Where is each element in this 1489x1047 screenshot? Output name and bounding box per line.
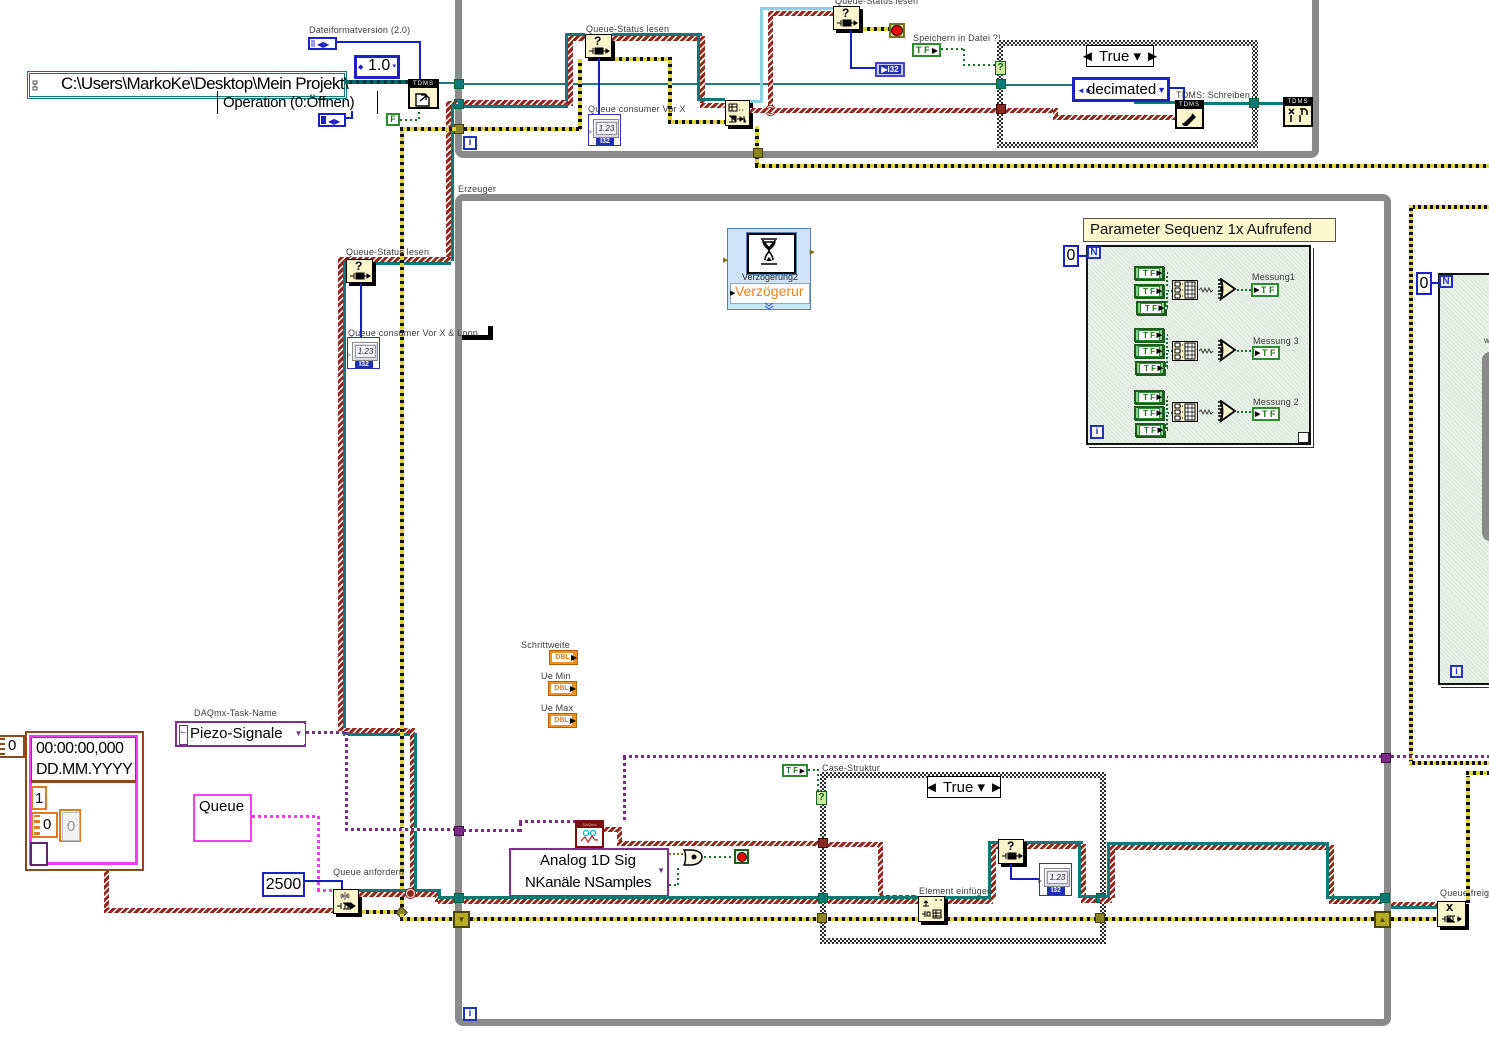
error wire up to loop1 (maroon vertical) bbox=[446, 101, 451, 261]
teal refnum wire TDMS open to loop1 bbox=[439, 82, 459, 84]
boolean TF constant for case2 bbox=[782, 764, 808, 777]
tunnel: queue refnum + error bbox=[454, 99, 464, 109]
maroon wire inside case2 bbox=[828, 842, 883, 847]
error olive from tunnel to QS1 bbox=[464, 127, 581, 131]
sequence structure (right edge) bbox=[1409, 205, 1489, 209]
label Queue-Status lesen (top right, clipped) bbox=[835, 0, 918, 6]
error olive below dequeue, exits loop1 bbox=[755, 126, 759, 160]
purple wire inside loop2 to DAQmx read bbox=[463, 829, 521, 832]
purple tunnel loop2 left bbox=[454, 826, 464, 836]
olive across case2 bbox=[828, 917, 1098, 921]
maroon tunnel case2 left bbox=[818, 838, 828, 848]
queue refnum up to QS2 (cyan) bbox=[750, 100, 763, 103]
row 2: squiggle bbox=[1199, 348, 1214, 355]
tunnel on loop1 bottom bbox=[753, 148, 763, 158]
error junction dot bbox=[766, 106, 775, 115]
olive wire QS2 to stop sign bbox=[860, 27, 889, 31]
queue+error pair QS1 to dequeue bbox=[612, 33, 702, 36]
blue wire QS1 to indicator bbox=[598, 58, 600, 114]
green dotted OR to stop2 bbox=[704, 856, 734, 858]
label DAQmx-Task-Name bbox=[194, 708, 277, 718]
row 3: boolean TF constants bbox=[1134, 390, 1164, 404]
DAQmx task name control Piezo-Signale bbox=[175, 721, 306, 747]
case structure 1 (top right, Speichern in Datei) bbox=[997, 40, 1258, 148]
array index element bbox=[0, 735, 25, 758]
row 3: squiggle bbox=[1199, 409, 1214, 416]
for loop Parameter Sequenz (green) bbox=[1083, 218, 1336, 242]
teal wire to TDMS close bbox=[1259, 102, 1283, 105]
label Speichern in Datei ?! bbox=[913, 33, 1001, 43]
wire F to TDMS open bbox=[400, 119, 420, 121]
constant 2500 bbox=[262, 872, 305, 897]
tunnel: error in bbox=[454, 124, 464, 134]
constant 0 wired to N of parameter for loop bbox=[1078, 255, 1088, 257]
tunnel teal case1 right bbox=[1249, 98, 1259, 108]
blue wire node to indicator bbox=[360, 284, 362, 337]
path text bbox=[61, 74, 348, 94]
queue+error pair to release queue bbox=[1391, 902, 1437, 907]
olive horizontal into loop1 tunnel bbox=[400, 127, 456, 131]
indicator I32 bbox=[875, 62, 905, 77]
row 1: compound OR bbox=[1212, 278, 1238, 302]
queue wire up to loop1 (teal vertical) bbox=[451, 104, 454, 261]
maroon horizontal (to lower column) bbox=[338, 728, 415, 733]
node: Dequeue Element bbox=[725, 100, 750, 126]
teal horizontal (to lower column) bbox=[343, 733, 417, 736]
queue name control bbox=[193, 794, 252, 842]
node: Insert Into Array (Element einfügen) bbox=[918, 896, 945, 922]
row 3 wires bbox=[1166, 396, 1168, 410]
inner while loop border (right edge, clipped) bbox=[1482, 352, 1489, 541]
row 2: boolean TF constants bbox=[1134, 328, 1164, 342]
olive error across loop2 to case2 bbox=[470, 917, 822, 921]
row 1: build array node bbox=[1172, 280, 1198, 300]
node: Release Queue bbox=[1437, 901, 1466, 927]
constant 0 wired to N of right for loop bbox=[1430, 282, 1440, 284]
label Operation (0:Öffnen) bbox=[217, 91, 218, 114]
while loop 2 (Erzeuger producer loop) bbox=[455, 194, 1391, 1026]
row 3: compound OR bbox=[1212, 400, 1238, 424]
maroon vertical (left column) bbox=[338, 257, 343, 731]
pair up and over QS3 bbox=[988, 841, 991, 899]
pair up, right, down to loop2 tunnel bbox=[1107, 842, 1110, 898]
olive tunnels case2 bbox=[817, 913, 827, 923]
purple wire from DAQmx read up and right (to right edge) bbox=[623, 757, 626, 820]
indicator icon Queue consumer Vor X & Loop (I32) bbox=[347, 337, 380, 369]
jog down into loop2 bbox=[435, 892, 440, 902]
case 1 selector label True bbox=[1086, 45, 1154, 67]
olive to right shift register bbox=[1105, 917, 1375, 921]
node: TDMS Close bbox=[1283, 97, 1313, 127]
resize handle bbox=[1298, 432, 1309, 443]
tunnel: TDMS refnum bbox=[454, 79, 464, 89]
obtain queue outputs: queue refnum + error bbox=[359, 889, 439, 892]
olive error from obtain queue bbox=[359, 910, 401, 914]
maroon horizontal jog bbox=[338, 257, 451, 262]
olive to release queue bbox=[1391, 917, 1437, 921]
teal wire write to tunnel bbox=[1204, 102, 1251, 105]
cluster wire (maroon) down and right to obtain queue bbox=[104, 871, 109, 911]
node: Get Queue Status (left) bbox=[346, 259, 373, 283]
case 1 selector terminal ? bbox=[995, 61, 1006, 75]
label Queue consumer Vor X bbox=[588, 104, 686, 114]
path glyph bbox=[32, 78, 39, 89]
array of clusters control (timestamp) bbox=[25, 731, 144, 871]
stop2 constant bbox=[734, 849, 749, 864]
long TDMS refnum wire across loop1 bbox=[463, 83, 997, 85]
error out of release queue, up and right bbox=[1466, 776, 1470, 903]
node: Obtain Queue bbox=[333, 889, 359, 914]
numeric 1 bbox=[31, 786, 47, 810]
DBL constant Ue Min bbox=[541, 671, 571, 681]
magenta wire queue name bbox=[252, 815, 320, 818]
empty boolean box bbox=[30, 842, 48, 866]
case 2 selector label True bbox=[927, 776, 1001, 798]
stop sign constant bbox=[889, 23, 905, 38]
indicator TF Messung 3 bbox=[1252, 346, 1280, 360]
DBL constant Schrittweite bbox=[521, 640, 570, 650]
file path control bbox=[27, 71, 347, 99]
label Messung1 bbox=[1252, 272, 1295, 282]
error wire dequeue to case1 (maroon) bbox=[750, 108, 997, 113]
queue+error across case2 bbox=[828, 896, 993, 899]
row 3: wire to indicator bbox=[1237, 411, 1251, 413]
teal vertical (lower) bbox=[414, 733, 417, 893]
while loop 2 label Erzeuger bbox=[458, 184, 496, 194]
indicator TF Messung1 bbox=[1251, 283, 1279, 297]
F boolean constant bbox=[386, 113, 400, 126]
teal tunnel case2 right bbox=[1096, 893, 1106, 903]
row 1: wire to indicator bbox=[1237, 289, 1251, 291]
maroon vertical (lower) bbox=[410, 728, 415, 893]
iteration terminal i of while loop 2 bbox=[463, 1007, 477, 1021]
count terminal N of right for loop bbox=[1439, 275, 1453, 288]
label bracket (black L) bbox=[462, 335, 493, 340]
label Queue anfordern bbox=[333, 867, 404, 877]
olive junction bbox=[395, 906, 408, 919]
error up to QS2 (maroon) bbox=[768, 11, 773, 110]
TDMS open node bbox=[408, 79, 439, 109]
blue wire QS2 to I32 bbox=[850, 30, 852, 69]
row 1: boolean TF constants bbox=[1134, 266, 1164, 280]
teal tunnel case2 left bbox=[818, 893, 828, 903]
enum constant decimated bbox=[1072, 77, 1170, 102]
polymorphic selector Analog 1D Sig bbox=[509, 848, 669, 897]
enum Dateiformatversion bbox=[308, 37, 337, 50]
label Messung 3 bbox=[1253, 336, 1299, 346]
node: DAQmx Read bbox=[575, 820, 604, 848]
tunnel maroon on case1 left bbox=[996, 104, 1006, 114]
green wire TF to case1 selector bbox=[941, 48, 965, 50]
grayed numeric 0 bbox=[59, 809, 81, 842]
numeric 0 with increment bbox=[31, 812, 58, 838]
queue+error pair across loop2 bottom bbox=[464, 896, 824, 899]
iteration terminal i of right for loop bbox=[1450, 665, 1463, 678]
label TDMS: Schreiben bbox=[1176, 90, 1250, 100]
label Element einfügen bbox=[919, 886, 992, 896]
teal tunnel loop2 right bbox=[1380, 893, 1390, 903]
green wire TF to case2 selector bbox=[808, 769, 819, 771]
row 1 wires to build array bbox=[1166, 272, 1168, 286]
for loop (right edge, inside sequence) bbox=[1438, 273, 1489, 685]
row 2: wire to indicator bbox=[1237, 350, 1251, 352]
indicator TF Messung 2 bbox=[1252, 407, 1280, 421]
path wire (teal dashed) to TDMS open bbox=[345, 80, 409, 84]
teal horizontal jog bbox=[343, 262, 451, 265]
blue wire 2500 to obtain queue bbox=[305, 880, 343, 882]
label Messung 2 bbox=[1253, 397, 1299, 407]
node: TDMS Write bbox=[1175, 100, 1204, 129]
blue wire decimated to TDMS write bbox=[1170, 87, 1185, 89]
row 2: compound OR bbox=[1212, 339, 1238, 363]
node: Get Queue Status 2 bbox=[833, 6, 860, 30]
error wire DAQmx read to case2 bbox=[604, 827, 622, 832]
error wire vertical (olive, obtain queue to loop1) bbox=[400, 129, 404, 914]
count terminal N of parameter for loop bbox=[1087, 246, 1101, 259]
indicator icon Queue consumer Vor X (I32) bbox=[588, 114, 621, 146]
while loop 1 (consumer/save loop, top) bbox=[455, 0, 1319, 158]
row 2 wires bbox=[1166, 334, 1168, 348]
boolean TF Speichern in Datei bbox=[912, 43, 941, 57]
node: Get Queue Status 1 bbox=[585, 34, 612, 58]
teal tunnel loop2 left (queue+error) bbox=[454, 893, 464, 903]
purple tunnel loop2 right bbox=[1381, 753, 1391, 763]
case structure 2 (bottom middle) bbox=[822, 763, 880, 773]
maroon wire inside case1 bbox=[1006, 108, 1058, 113]
indicator icon I32 (case2) bbox=[1039, 863, 1072, 896]
timestamp display bbox=[31, 737, 136, 783]
label Dateiformatversion (2.0) bbox=[309, 25, 410, 35]
case 2 selector terminal ? bbox=[816, 791, 827, 805]
long olive wire below loop1 to right edge bbox=[755, 164, 1489, 168]
error olive QS1 to dequeue bbox=[612, 57, 672, 61]
green dotted into OR gate bbox=[669, 884, 679, 886]
row 1: squiggle wire bbox=[1199, 287, 1214, 294]
operation enum constant bbox=[351, 111, 353, 119]
wire enum to TDMS open version input bbox=[337, 41, 421, 43]
OR gate bbox=[683, 848, 705, 867]
ring constant 1.0 bbox=[354, 55, 400, 79]
DBL constant Ue Max bbox=[541, 703, 573, 713]
Queue-Status lesen (left) bbox=[346, 247, 429, 257]
label Queue freigeben bbox=[1440, 888, 1489, 898]
tunnel teal on case1 left bbox=[996, 79, 1006, 89]
shift register left (error) bbox=[453, 911, 470, 928]
teal wire inside case1 bbox=[1006, 84, 1136, 86]
shift register right (error) bbox=[1374, 911, 1391, 928]
teal vertical (left column) bbox=[343, 262, 346, 733]
Verzoegerung2 express VI bbox=[727, 228, 811, 310]
row 3: build array node bbox=[1172, 402, 1198, 422]
node: Get Queue Status 3 bbox=[998, 839, 1024, 864]
blue wire QS3 to I32 icon bbox=[1010, 864, 1012, 880]
queue+error pair from tunnel to QS1 bbox=[464, 100, 568, 105]
label Queue-Status lesen (loop1) bbox=[586, 24, 669, 34]
purple wire task name bbox=[306, 731, 348, 734]
iteration terminal i of while loop 1 bbox=[463, 136, 477, 150]
pair stubs out of case2 bbox=[1100, 895, 1110, 898]
junction dot on error bbox=[406, 889, 415, 898]
thin olive dotted into OR gate bbox=[669, 853, 683, 855]
row 2: build array node bbox=[1172, 341, 1198, 361]
label Queue consumer Vor X & Loop bbox=[348, 328, 478, 338]
iteration terminal i of parameter for loop bbox=[1090, 425, 1104, 439]
